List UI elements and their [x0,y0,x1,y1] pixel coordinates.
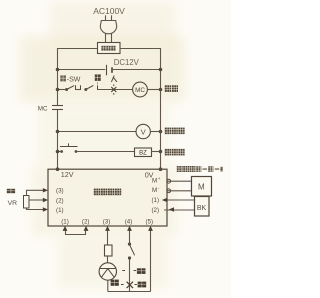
FR switch lower contact [128,256,131,259]
wire BZ-bus [152,151,161,153]
key switch SW1 [65,85,75,91]
junction 0V pin [159,167,163,171]
power selector SW2 [81,82,98,91]
voltmeter row wire [58,131,137,133]
voltmeter V [136,124,150,138]
reverse lamp X [127,282,133,288]
速度 label [7,189,15,193]
入 label [111,76,117,82]
junction BZ-left [56,150,60,154]
svg-text:MC: MC [135,87,145,94]
VR wire top [27,190,44,195]
wire resistor-horn [107,256,109,263]
left pin arrow 1 [43,207,48,211]
left bus wire lower [57,110,59,170]
dash left row1 [122,270,125,272]
junction key-row-right [159,88,163,92]
svg-text:VR: VR [8,200,18,207]
svg-text:BK: BK [197,205,207,212]
svg-text:M: M [152,178,157,185]
VR wire bottom [27,208,44,210]
junction V-right [159,130,163,134]
svg-text:(1): (1) [152,197,160,204]
junction BZ-right [159,150,163,154]
wire SW2-lamp [98,89,133,91]
bottom pin arrow 5 [148,226,153,231]
motor M box [192,177,212,197]
buzzer row wire [58,151,61,153]
brake BK box [195,197,210,217]
svg-text:12V: 12V [61,170,74,179]
svg-text:-SW: -SW [67,76,81,83]
battery row wire right [113,69,161,71]
control board box [48,169,167,226]
前進 label [137,268,146,274]
buzzer BZ box [135,148,152,157]
切 label [95,74,101,81]
bottom bus wire [108,291,151,293]
charger box [98,43,121,54]
M+ terminal dot [167,179,171,183]
svg-text:(4): (4) [125,218,133,225]
svg-text:(2): (2) [56,197,64,204]
key-SW row wire [58,89,66,91]
horn label [111,280,119,286]
battery B1 [107,65,113,76]
wire pin4 lower [129,259,131,291]
wire V-bus [150,131,160,133]
push button PB [60,143,78,153]
走行用モーター label [177,166,223,172]
bottom pin arrow 1 [63,226,68,231]
battery row wire left [58,69,106,71]
svg-text:(3): (3) [103,218,111,225]
FR switch blade [130,246,135,256]
BK arrow 1 [162,198,168,203]
FR switch upper contact [128,243,131,246]
VR wire wiper [29,199,43,201]
pilot lamp PL [111,84,116,95]
junction key-row-left [56,88,60,92]
svg-text:DC12V: DC12V [114,58,140,67]
BK wire 2 [164,209,195,211]
horn H [99,263,116,280]
svg-text:(1): (1) [61,218,69,225]
BK arrow 2 [169,207,174,211]
left pin arrow 3 [43,188,48,192]
wire horn-bottom [107,280,109,291]
MC contact [52,106,63,110]
key switch label キ-SW [60,75,81,83]
残量計 label [165,128,185,135]
dash right row1 [134,270,137,272]
wire MC-bus [147,89,160,91]
jumper wire pins 1-2 [66,231,86,235]
bottom pin arrow 3 [105,226,110,231]
wire pin5 down [150,231,152,292]
svg-text:+: + [158,176,161,181]
svg-text:M: M [198,182,205,191]
svg-text:(2): (2) [82,218,90,225]
left pin arrow 2 [43,198,48,202]
svg-text:BZ: BZ [139,151,147,157]
junction V-left [56,130,60,134]
junction battery-left [56,68,60,72]
制御基板 label [94,189,121,196]
resistor R [105,245,113,256]
後進 label [138,282,147,288]
junction battery-right [159,68,163,72]
bottom pin arrow 4 [127,226,132,231]
svg-text:AC100V: AC100V [93,6,125,16]
BK wire 1 [164,199,195,201]
M- terminal dot [167,189,171,193]
top bus wire [58,48,98,50]
wire SW1-SW2 [76,89,81,91]
M- wire [167,190,192,192]
svg-text:(1): (1) [56,207,64,214]
svg-text:MC: MC [38,106,48,113]
right bus wire [160,48,162,169]
dash right row2 [135,284,137,286]
svg-text:(5): (5) [146,218,154,225]
svg-text:(2): (2) [152,207,160,214]
left bus wire [57,48,59,106]
wire PB-BZ [77,151,134,153]
M+ wire [167,180,192,182]
bottom pin arrow 2 [84,226,89,231]
top bus wire right [120,48,161,50]
charger label 充電器 [101,46,115,51]
電源 label [165,85,178,92]
警報機 label [165,149,185,156]
svg-text:M: M [152,187,157,194]
dash left row2 [121,284,124,286]
wire pin3 down [107,231,109,245]
potentiometer VR body [24,196,30,209]
svg-text:(3): (3) [56,188,64,195]
AC plug P1 [100,15,116,42]
contactor coil MC [133,82,148,97]
junction 12V pin [56,167,60,171]
wire pin4 down [129,231,131,243]
